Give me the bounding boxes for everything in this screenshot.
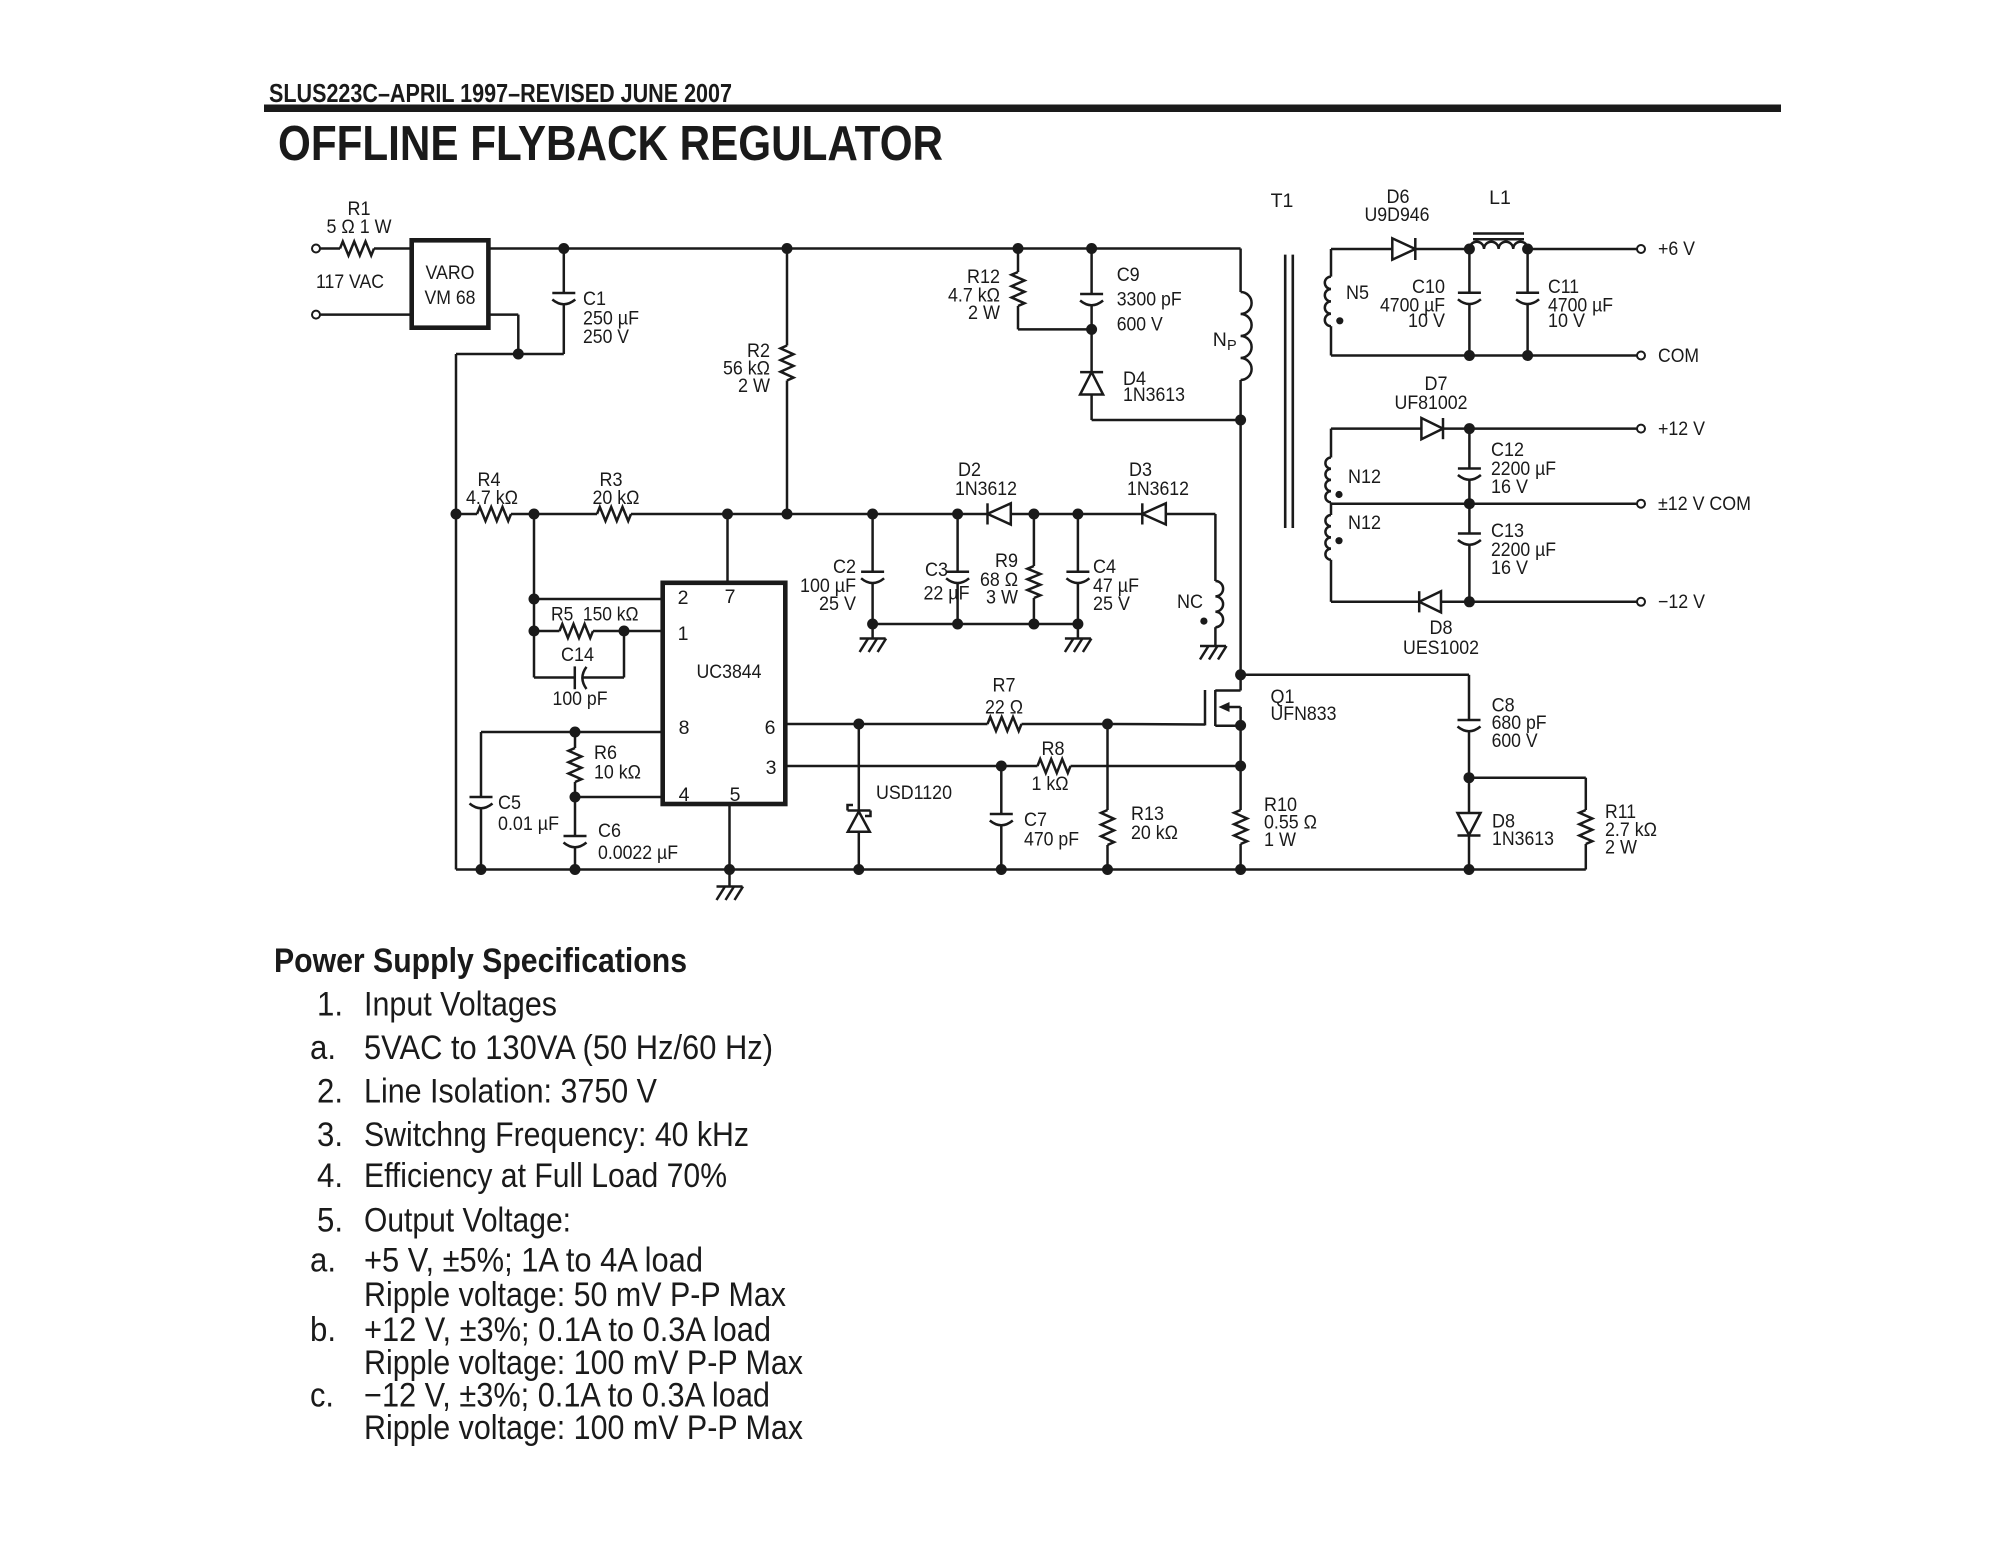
wire	[1469, 776, 1586, 779]
svg-text:3300 pF: 3300 pF	[1117, 289, 1182, 311]
list item 1	[317, 986, 557, 1024]
svg-text:5 Ω 1 W: 5 Ω 1 W	[327, 216, 393, 238]
svg-text:Ripple voltage: 50 mV P-P Max: Ripple voltage: 50 mV P-P Max	[364, 1276, 786, 1314]
svg-text:SLUS223C–APRIL 1997–REVISED JU: SLUS223C–APRIL 1997–REVISED JUNE 2007	[269, 78, 732, 108]
node	[996, 864, 1007, 875]
svg-text:22 µF: 22 µF	[924, 583, 970, 605]
wire: pin 3 lead	[785, 765, 1037, 768]
zener diode USD1120	[848, 724, 953, 870]
list item b line2	[364, 1344, 803, 1382]
svg-text:5: 5	[730, 784, 741, 806]
node: R9 top	[1028, 509, 1039, 520]
wire: +DC top rail	[488, 247, 1240, 250]
svg-text:Switchng Frequency: 40 kHz: Switchng Frequency: 40 kHz	[364, 1116, 749, 1154]
label +12 V	[1658, 418, 1705, 440]
svg-text:600 V: 600 V	[1492, 730, 1538, 752]
capacitor C11	[1516, 249, 1613, 356]
svg-text:+12 V: +12 V	[1658, 418, 1705, 440]
svg-text:a.: a.	[310, 1029, 336, 1067]
svg-text:Power Supply Specifications: Power Supply Specifications	[274, 942, 687, 980]
svg-text:250 V: 250 V	[583, 326, 629, 348]
ground: under C4	[1065, 624, 1092, 652]
svg-text:16 V: 16 V	[1491, 476, 1528, 498]
capacitor C14	[534, 644, 624, 710]
svg-text:1N3612: 1N3612	[1127, 478, 1189, 500]
wire	[1528, 248, 1637, 251]
wire: pin 6 lead	[785, 723, 987, 726]
svg-text:1N3613: 1N3613	[1123, 384, 1185, 406]
capacitor C9	[1080, 249, 1182, 336]
svg-text:10 kΩ: 10 kΩ	[594, 762, 641, 784]
list item c	[310, 1376, 770, 1414]
svg-text:b.: b.	[310, 1311, 336, 1349]
node: C3 top	[952, 509, 963, 520]
node: Q1 drain	[1235, 669, 1246, 680]
node	[529, 594, 540, 605]
capacitor C1	[552, 249, 639, 355]
svg-text:N12: N12	[1348, 512, 1381, 534]
node: pin7 junction	[722, 509, 733, 520]
svg-text:UES1002: UES1002	[1403, 637, 1479, 659]
node: C2 top	[867, 509, 878, 520]
transformer T1 winding N12 upper	[1325, 429, 1381, 503]
svg-text:1N3612: 1N3612	[955, 478, 1017, 500]
svg-text:25 V: 25 V	[1093, 593, 1130, 615]
resistor R1	[327, 198, 393, 256]
terminal: +6 V	[1637, 245, 1645, 253]
svg-text:5.: 5.	[317, 1202, 343, 1240]
node: C9/D4 junction	[1086, 324, 1097, 335]
node: R2 bottom junction	[782, 509, 793, 520]
capacitor C8	[1458, 675, 1547, 778]
svg-text:10 V: 10 V	[1408, 310, 1445, 332]
svg-text:+6 V: +6 V	[1658, 238, 1695, 260]
wire: C1 bottom to left rail	[456, 353, 564, 356]
wire: D3 to NC winding	[1166, 514, 1216, 581]
svg-text:T1: T1	[1271, 190, 1294, 212]
svg-text:C14: C14	[561, 644, 594, 666]
transformer T1 core	[1285, 255, 1293, 528]
svg-text:2 W: 2 W	[1605, 837, 1638, 859]
svg-text:C3: C3	[925, 559, 948, 581]
capacitor C12	[1458, 429, 1556, 504]
terminal: COM	[1637, 352, 1645, 360]
svg-text:L1: L1	[1489, 187, 1511, 209]
label +6 V	[1658, 238, 1695, 260]
phasing dot N12 upper	[1335, 491, 1342, 498]
node	[1464, 498, 1475, 509]
node	[476, 864, 487, 875]
svg-text:c.: c.	[310, 1376, 334, 1414]
svg-text:±12 V COM: ±12 V COM	[1658, 493, 1751, 515]
bridge rectifier VARO VM 68	[412, 240, 489, 327]
svg-text:NC: NC	[1177, 591, 1203, 613]
diode D3	[1127, 459, 1189, 525]
resistor R8	[1032, 738, 1241, 795]
wire: drain snubber lead	[1241, 674, 1469, 677]
svg-text:1N3613: 1N3613	[1492, 828, 1554, 850]
svg-text:R7: R7	[993, 675, 1016, 697]
svg-text:R5 150 kΩ: R5 150 kΩ	[551, 604, 639, 626]
terminal: AC input top	[312, 245, 320, 253]
transformer T1 winding N12 lower	[1325, 502, 1381, 602]
node	[853, 864, 864, 875]
label COM	[1658, 345, 1699, 367]
wire	[320, 247, 340, 250]
node	[853, 719, 864, 730]
header: document number line	[269, 78, 732, 108]
phasing dot N5	[1336, 317, 1343, 324]
label -12 V	[1658, 591, 1705, 613]
capacitor C7	[990, 766, 1079, 870]
svg-text:Line Isolation: 3750 V: Line Isolation: 3750 V	[364, 1072, 657, 1110]
svg-text:Ripple voltage: 100 mV P-P Max: Ripple voltage: 100 mV P-P Max	[364, 1409, 803, 1447]
wire: 12V common	[1331, 502, 1637, 505]
node	[1235, 864, 1246, 875]
svg-text:4.7 kΩ: 4.7 kΩ	[466, 487, 518, 509]
svg-text:1 kΩ: 1 kΩ	[1032, 773, 1069, 795]
node	[570, 792, 581, 803]
svg-text:a.: a.	[310, 1242, 336, 1280]
wire: source to R10	[1239, 726, 1242, 810]
svg-text:25 V: 25 V	[819, 593, 856, 615]
wire	[1441, 601, 1637, 604]
wire: D4 to primary bottom	[1092, 419, 1241, 422]
svg-text:3 W: 3 W	[986, 587, 1019, 609]
node: C1 top	[558, 243, 569, 254]
ground: under C2	[860, 624, 887, 652]
node: Q1 source	[1235, 720, 1246, 731]
wire	[320, 313, 412, 316]
node	[570, 727, 581, 738]
transformer T1 winding N5	[1325, 249, 1369, 356]
node	[724, 864, 735, 875]
svg-text:VARO: VARO	[426, 262, 475, 284]
wire: feedback branch vertical	[533, 514, 536, 678]
svg-text:8: 8	[679, 717, 690, 739]
wire: primary to Q1 drain	[1239, 420, 1242, 675]
svg-text:100 pF: 100 pF	[553, 688, 608, 710]
resistor R3	[534, 469, 728, 521]
list item 3	[317, 1116, 749, 1154]
resistor R13	[1101, 724, 1178, 870]
svg-text:3.: 3.	[317, 1116, 343, 1154]
node: C9 top	[1086, 243, 1097, 254]
list item 4	[317, 1157, 727, 1195]
op-amp U1 UC3844	[663, 583, 786, 804]
svg-text:C6: C6	[598, 820, 621, 842]
list item c line2	[364, 1409, 803, 1447]
phasing dot NC	[1200, 618, 1207, 625]
wire	[1415, 248, 1469, 251]
svg-text:4.: 4.	[317, 1157, 343, 1195]
wire: ground bus	[456, 868, 1586, 871]
wire: gate lead	[1108, 723, 1206, 726]
wire: pin 5 lead	[728, 804, 731, 887]
svg-text:−12 V: −12 V	[1658, 591, 1705, 613]
pin 7	[725, 586, 736, 608]
svg-text:UC3844: UC3844	[697, 661, 762, 683]
heading: Power Supply Specifications	[274, 942, 687, 980]
svg-text:117 VAC: 117 VAC	[316, 271, 384, 293]
node: R7/R13 junction	[1102, 719, 1113, 730]
transformer T1 winding NC	[1177, 581, 1223, 646]
node	[952, 619, 963, 630]
wire: pin 7 stub	[726, 514, 729, 583]
list item 5	[317, 1202, 571, 1240]
svg-text:2: 2	[678, 587, 689, 609]
node: current sense junction	[1235, 761, 1246, 772]
wire: VARO minus lead	[488, 315, 518, 354]
node	[1072, 619, 1083, 630]
svg-text:1.: 1.	[317, 986, 343, 1024]
diode D2	[955, 459, 1017, 525]
resistor R9	[980, 514, 1040, 624]
wire	[728, 513, 873, 516]
svg-text:N12: N12	[1348, 466, 1381, 488]
svg-text:20 kΩ: 20 kΩ	[1131, 822, 1178, 844]
pin 1	[678, 623, 689, 645]
node	[1464, 864, 1475, 875]
svg-text:+5 V, ±5%; 1A to 4A load: +5 V, ±5%; 1A to 4A load	[364, 1242, 703, 1280]
node	[1522, 350, 1533, 361]
node: R4/R3 junction	[529, 509, 540, 520]
resistor R4	[456, 469, 534, 521]
wire: COM return	[1331, 354, 1637, 357]
capacitor C10	[1380, 249, 1481, 356]
resistor R2	[723, 249, 794, 515]
svg-text:2 W: 2 W	[738, 375, 771, 397]
diode D6 U9D946	[1365, 186, 1430, 260]
phasing dot N12 lower	[1335, 537, 1342, 544]
node: VARO minus junction	[513, 349, 524, 360]
svg-text:3: 3	[766, 757, 777, 779]
svg-text:5VAC to 130VA (50 Hz/60 Hz): 5VAC to 130VA (50 Hz/60 Hz)	[364, 1029, 773, 1067]
wire	[1011, 513, 1143, 516]
transistor Q1 UFN833	[1205, 675, 1337, 726]
pin 8	[679, 717, 690, 739]
wire: pin 2 lead	[534, 598, 663, 601]
node	[1464, 350, 1475, 361]
pin 5	[730, 784, 741, 806]
node	[1028, 619, 1039, 630]
diode D8 snubber	[1458, 778, 1555, 870]
svg-text:Efficiency at Full Load 70%: Efficiency at Full Load 70%	[364, 1157, 727, 1195]
node	[867, 619, 878, 630]
svg-text:20 kΩ: 20 kΩ	[593, 487, 640, 509]
node	[1464, 596, 1475, 607]
list item a	[310, 1029, 773, 1067]
svg-text:4: 4	[679, 784, 690, 806]
svg-text:22 Ω: 22 Ω	[985, 697, 1023, 719]
list item b	[310, 1311, 771, 1349]
ground: NC winding	[1200, 646, 1227, 660]
diode D4	[1080, 329, 1185, 420]
svg-text:1: 1	[678, 623, 689, 645]
list item a2 line2	[364, 1276, 786, 1314]
list item 2	[317, 1072, 657, 1110]
wire	[1331, 427, 1421, 430]
svg-text:USD1120: USD1120	[876, 782, 952, 804]
wire	[1331, 248, 1392, 251]
wire: pin 4 lead	[575, 796, 663, 799]
capacitor C3	[924, 514, 970, 624]
svg-text:16 V: 16 V	[1491, 557, 1528, 579]
terminal: +/-12V COM	[1637, 500, 1645, 508]
capacitor C5	[470, 732, 560, 870]
svg-text:C9: C9	[1117, 264, 1140, 286]
node	[1102, 864, 1113, 875]
svg-text:P: P	[1227, 338, 1237, 354]
svg-text:0.0022 µF: 0.0022 µF	[598, 842, 678, 864]
terminal: AC input bottom	[312, 311, 320, 319]
node: C8/D8/R11 junction	[1464, 772, 1475, 783]
pin 6	[765, 717, 776, 739]
svg-text:6: 6	[765, 717, 776, 739]
pin 3	[766, 757, 777, 779]
svg-text:COM: COM	[1658, 345, 1699, 367]
resistor R5	[534, 604, 639, 639]
list item a2	[310, 1242, 703, 1280]
title: OFFLINE FLYBACK REGULATOR	[278, 117, 943, 171]
resistor R11	[1579, 778, 1657, 870]
terminal: -12 V	[1637, 598, 1645, 606]
transformer T1 primary winding NP	[1213, 249, 1252, 421]
svg-text:C5: C5	[498, 792, 521, 814]
svg-text:1 W: 1 W	[1264, 829, 1297, 851]
svg-text:OFFLINE FLYBACK REGULATOR: OFFLINE FLYBACK REGULATOR	[278, 117, 943, 171]
node: primary bottom junction	[1235, 415, 1246, 426]
resistor R10	[1234, 794, 1317, 870]
svg-text:VM 68: VM 68	[425, 287, 476, 309]
svg-text:R8: R8	[1042, 738, 1065, 760]
svg-text:600 V: 600 V	[1117, 314, 1163, 336]
diode D8 UES1002	[1403, 591, 1479, 659]
svg-text:470 pF: 470 pF	[1024, 829, 1079, 851]
svg-text:2.: 2.	[317, 1072, 343, 1110]
svg-text:7: 7	[725, 586, 736, 608]
svg-text:N: N	[1213, 329, 1227, 351]
capacitor C13	[1458, 504, 1556, 602]
capacitor C2	[800, 514, 884, 624]
wire	[1443, 427, 1637, 430]
node	[1464, 244, 1475, 255]
svg-text:UFN833: UFN833	[1271, 703, 1337, 725]
wire: snubber ground bus	[873, 623, 1078, 626]
inductor L1	[1469, 187, 1527, 249]
resistor R7	[985, 675, 1108, 732]
svg-text:D8: D8	[1430, 617, 1453, 639]
diode D7 UF81002	[1395, 373, 1468, 439]
node: left rail / R4	[451, 509, 462, 520]
wire	[1331, 601, 1419, 604]
pin 4	[679, 784, 690, 806]
svg-text:U9D946: U9D946	[1365, 204, 1430, 226]
resistor R6	[569, 732, 642, 797]
wire: left rail	[455, 354, 458, 870]
label T1	[1271, 190, 1294, 212]
svg-text:Output Voltage:: Output Voltage:	[364, 1202, 571, 1240]
capacitor C4	[1066, 514, 1139, 624]
label +/-12 V COM	[1658, 493, 1751, 515]
wire	[873, 513, 988, 516]
svg-text:2 W: 2 W	[968, 302, 1001, 324]
pin 2	[678, 587, 689, 609]
node	[570, 864, 581, 875]
node	[1522, 244, 1533, 255]
ground: pin 5	[717, 887, 744, 901]
node	[1464, 423, 1475, 434]
node: R2 top	[782, 243, 793, 254]
resistor R12	[948, 249, 1092, 330]
wire	[374, 247, 412, 250]
wire: pin 8 lead	[481, 731, 663, 734]
label 117 VAC	[316, 271, 384, 293]
svg-text:0.01 µF: 0.01 µF	[498, 813, 559, 835]
node: C4 top	[1072, 509, 1083, 520]
node: R12 top	[1013, 243, 1024, 254]
svg-text:Input Voltages: Input Voltages	[364, 986, 557, 1024]
node: C7 junction	[996, 761, 1007, 772]
svg-text:10 V: 10 V	[1548, 310, 1585, 332]
svg-text:N5: N5	[1346, 282, 1369, 304]
node: R5/pin1	[619, 626, 630, 637]
node	[529, 626, 540, 637]
capacitor C6	[564, 797, 679, 870]
svg-text:UF81002: UF81002	[1395, 392, 1468, 414]
header rule	[264, 105, 1781, 113]
wire: pin 1 lead	[624, 631, 663, 678]
terminal: +12 V	[1637, 425, 1645, 433]
